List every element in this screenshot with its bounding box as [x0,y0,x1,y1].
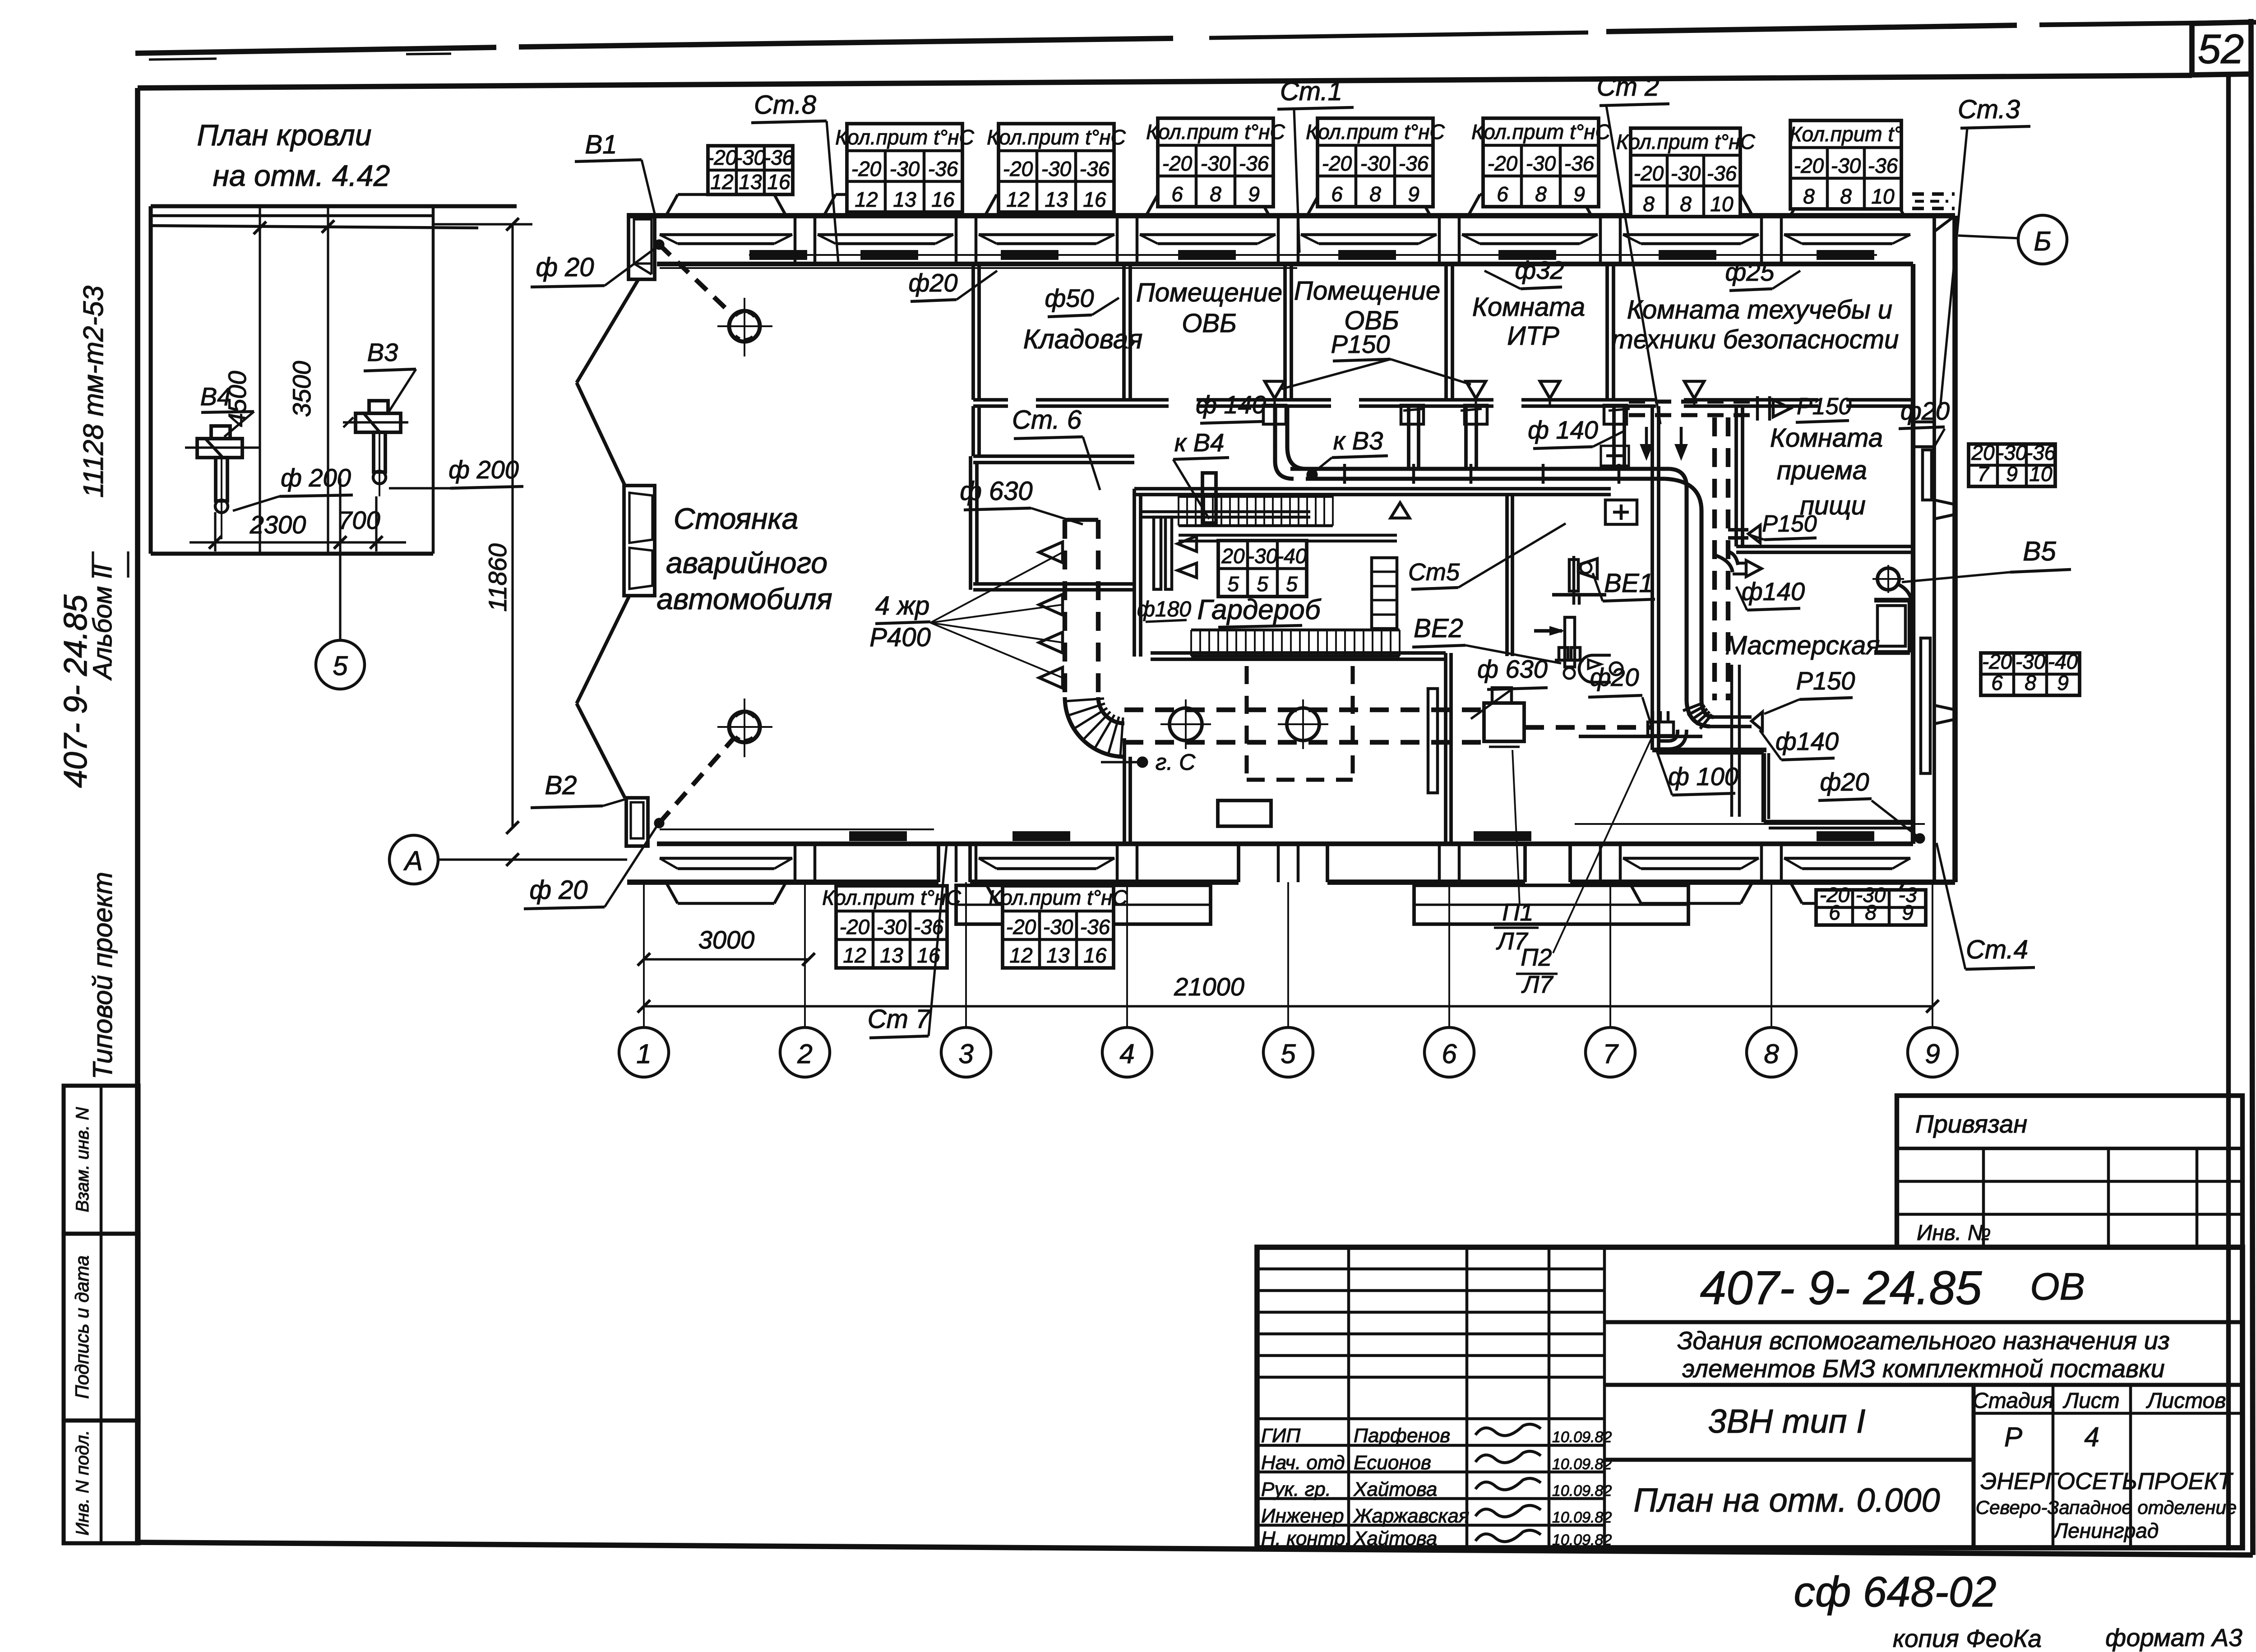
pier axis 6 north [1438,216,1441,264]
svg-text:13: 13 [1045,188,1068,211]
title right part lines [1604,1320,2242,1324]
table T9 (bottom) [836,886,947,968]
svg-text:ф20: ф20 [908,268,957,297]
axis circle 2 [780,1027,830,1077]
east wall inner [1911,264,1915,844]
svg-text:16: 16 [1083,188,1106,211]
riser boxes on room wall [1263,405,1286,424]
stair landing wall [1179,534,1397,537]
svg-text:6: 6 [1331,182,1343,206]
svg-text:Ст5: Ст5 [1408,559,1460,586]
f100 pipe elbow [1669,730,1687,749]
svg-text:8: 8 [1840,185,1852,208]
svg-text:10: 10 [1871,185,1895,208]
wall axis6 lower [1444,653,1447,844]
svg-text:10.09.82: 10.09.82 [1552,1456,1612,1473]
svg-text:11860: 11860 [483,543,512,612]
svg-text:6: 6 [1171,182,1183,206]
vent circle V1 [729,311,760,342]
pier axis 6 south [1438,844,1441,882]
table T5 [1318,118,1433,207]
dim 2300 / 700 [214,512,216,551]
south wall inner line [657,842,1913,846]
window north bay 5 [1301,233,1437,236]
axis A circle [389,835,438,884]
page number box 52 [2189,22,2195,75]
svg-text:ф140: ф140 [1775,727,1839,755]
svg-text:ф20: ф20 [1820,768,1869,796]
svg-text:700: 700 [338,506,380,534]
small riser unit right [1579,735,1702,738]
svg-text:16: 16 [767,170,791,194]
svg-text:П2: П2 [1521,944,1552,971]
svg-text:20: 20 [1221,544,1245,568]
svg-text:Кол.прит t°нС: Кол.прит t°нС [1616,130,1755,153]
stair flight lower [1191,629,1400,632]
roof dim line 3500 [327,206,329,554]
svg-text:Привязан: Привязан [1915,1110,2027,1138]
fan unit on duct [1484,703,1524,741]
svg-text:-30: -30 [1671,162,1701,185]
svg-text:ф 630: ф 630 [960,477,1032,506]
svg-text:ф 140: ф 140 [1196,390,1266,419]
flag triangles near f180 [1178,536,1197,551]
svg-text:B5: B5 [2023,536,2056,566]
stub cone [1773,400,1790,417]
svg-text:-36: -36 [1564,152,1595,175]
dim 11860 [511,224,513,828]
east cavity radiators [1923,450,1932,500]
axis 5 drop line and circle [339,478,341,641]
svg-text:8: 8 [1803,185,1815,208]
dim line 21000 [644,1005,1932,1007]
gs point [1138,758,1147,767]
window bump below bay 1 [666,882,678,903]
svg-text:пищи: пищи [1800,491,1866,520]
se corner dot [1916,834,1924,842]
radiator south [850,832,906,840]
svg-text:11128 тм-т2-53: 11128 тм-т2-53 [78,286,109,498]
masterskaya diffuser cone [1752,712,1762,730]
svg-text:ОВБ: ОВБ [1344,306,1399,335]
svg-text:-20: -20 [1982,650,2012,673]
svg-text:Кол.прит t°нС: Кол.прит t°нС [1146,120,1285,143]
sanuzel left wall [1505,495,1509,656]
svg-text:-30: -30 [877,915,907,939]
title block outer [1257,1247,2242,1548]
svg-text:8: 8 [1865,901,1877,924]
window bump above bay 5 [1307,194,1319,216]
table T13 (right) [1981,653,2080,695]
svg-text:Р400: Р400 [869,623,930,652]
svg-text:13: 13 [893,188,916,211]
svg-text:Рук. гр.: Рук. гр. [1261,1478,1331,1500]
svg-text:на отм. 4.42: на отм. 4.42 [213,159,390,192]
svg-text:5: 5 [1286,572,1298,596]
B5 circle symbol [1877,568,1899,590]
svg-text:-20: -20 [840,915,870,939]
svg-text:Взам. инв. N: Взам. инв. N [73,1107,92,1212]
intake triangles [1039,542,1063,563]
svg-text:52: 52 [2198,26,2244,72]
window north bay 2 [818,233,953,236]
svg-text:-20: -20 [851,157,882,180]
svg-text:12: 12 [843,944,866,967]
window bump below bay 8 [1790,882,1802,903]
svg-text:10.09.82: 10.09.82 [1552,1429,1612,1446]
priema diffuser cone [1748,525,1760,543]
pier axis 4 north [1116,216,1119,264]
svg-text:к В4: к В4 [1174,428,1225,457]
svg-text:План кровли: План кровли [197,118,371,152]
dashed door line to V2 [655,819,663,827]
room divider wall [1283,264,1287,400]
window bump below bay 3 [985,882,997,903]
vent B3 symbol [369,401,388,413]
svg-text:Лист: Лист [2062,1389,2120,1413]
svg-text:-20: -20 [1322,152,1352,175]
heating pipe south [660,828,934,830]
svg-text:-36: -36 [1080,157,1110,180]
svg-text:407- 9- 24.85: 407- 9- 24.85 [1700,1262,1982,1314]
svg-text:-30: -30 [1201,152,1231,175]
svg-text:7: 7 [1977,462,1989,486]
axis circle 1 [619,1027,669,1077]
svg-text:2300: 2300 [250,510,306,539]
roof dim line 4500 [259,206,261,554]
svg-text:8: 8 [1764,1039,1779,1069]
svg-text:ф 20: ф 20 [536,253,594,282]
svg-text:Нач. отд: Нач. отд [1261,1452,1345,1474]
porch left [956,885,1211,924]
svg-text:13: 13 [880,944,903,967]
east wall middle line [1932,216,1936,882]
svg-text:9: 9 [1925,1039,1940,1069]
svg-text:Кол.прит t°нС: Кол.прит t°нС [989,886,1128,909]
kladovaya left wall [971,264,975,400]
window bump above bay 2 [824,194,836,216]
svg-text:ф 100: ф 100 [1668,762,1738,791]
dashed door line to V1 [655,241,663,249]
window bump above bay 4 [1146,194,1158,216]
svg-text:Помещение: Помещение [1136,278,1282,307]
axis extension lines [643,882,645,1027]
svg-text:-20: -20 [1488,152,1518,175]
pier axis 8 north [1760,216,1763,264]
shaft dashed duct vertical [1712,417,1717,700]
west wall bottom jamb [626,798,648,846]
room bottom wall (top rooms) [973,398,1008,402]
svg-text:-20: -20 [1003,157,1033,180]
svg-text:ГИП: ГИП [1261,1425,1300,1447]
svg-text:B4: B4 [200,382,231,411]
window bump above bay 8 [1790,194,1802,216]
svg-text:Типовой проект: Типовой проект [88,872,118,1079]
svg-text:Кол.прит t°нС: Кол.прит t°нС [835,125,974,149]
pier axis 7 north [1599,216,1602,264]
svg-text:Альбом II: Альбом II [88,565,117,681]
small solid rect [1218,801,1271,826]
svg-text:-36: -36 [928,157,958,180]
corridor south walls [1123,738,1126,844]
svg-text:Кол.прит t°нС: Кол.прит t°нС [1306,120,1445,143]
west wall middle pier [624,486,655,596]
svg-text:Ст 2: Ст 2 [1597,72,1660,102]
svg-text:Р150: Р150 [1796,666,1855,695]
main duct right elbow down [1669,469,1687,487]
vestibule north wall [973,454,1134,458]
svg-text:8: 8 [1535,182,1547,206]
svg-text:копия ФеоКа: копия ФеоКа [1893,1624,2042,1652]
svg-text:Ст.1: Ст.1 [1280,77,1342,106]
svg-text:8: 8 [1369,182,1381,206]
svg-text:приема: приема [1777,456,1867,485]
svg-text:12: 12 [855,188,878,211]
svg-text:12: 12 [1009,944,1032,967]
svg-text:B2: B2 [545,771,577,800]
shaft thin pipe [1730,665,1734,817]
window bump above bay 7 [1629,194,1641,216]
radiator north [1179,251,1235,259]
room divider wall [1605,264,1609,400]
svg-text:Ст.4: Ст.4 [1966,935,2028,964]
svg-text:2: 2 [797,1039,812,1069]
riser flags [1265,381,1285,398]
svg-text:6: 6 [1497,182,1508,206]
vestibule left wall [969,456,972,590]
svg-text:10.09.82: 10.09.82 [1552,1482,1612,1499]
north wall outer line [627,213,1955,218]
table T8 [1790,120,1901,209]
pier axis 3 south [955,844,958,882]
window north bay 1 [660,233,792,236]
corridor duct dashed upper [1124,708,1484,712]
svg-text:А: А [403,846,423,876]
shaft wall left [1650,406,1654,750]
svg-text:9: 9 [1573,182,1585,206]
top right dashed stub duct [1629,399,1757,403]
svg-text:B1: B1 [585,130,617,159]
window south bay 1 [660,857,792,860]
axis circle 4 [1102,1027,1152,1077]
svg-text:-30: -30 [735,146,766,169]
svg-text:-30: -30 [1248,544,1278,568]
svg-text:-20: -20 [1162,152,1193,175]
svg-text:9: 9 [1248,182,1260,206]
svg-text:B3: B3 [367,338,398,366]
west wall zigzag lower [577,596,629,703]
svg-text:Стоянка: Стоянка [674,502,799,535]
vestibule south wall [973,582,1134,586]
svg-text:Инв. N подл.: Инв. N подл. [73,1430,92,1536]
window north bay 8 [1784,233,1910,236]
svg-text:Подпись и дата: Подпись и дата [71,1255,92,1399]
svg-text:Ст.3: Ст.3 [1958,95,2020,124]
west wall zigzag upper [577,279,638,383]
svg-text:Северо-Западное отделение: Северо-Западное отделение [1976,1497,2237,1518]
table T1 (Ст.8) [708,146,793,194]
svg-text:3500: 3500 [287,361,316,417]
svg-text:Хайтова: Хайтова [1353,1478,1437,1500]
svg-text:5: 5 [1227,572,1239,596]
window bump above bay 6 [1468,194,1480,216]
svg-text:Кол.прит t°: Кол.прит t° [1789,122,1902,146]
svg-text:Ст 7: Ст 7 [868,1004,931,1034]
duct elbow spokes [1065,697,1124,757]
porch right [1414,885,1688,924]
svg-text:Листов: Листов [2146,1389,2226,1413]
stove unit [1877,606,1905,646]
east cavity stubs top [1913,421,1934,424]
svg-text:Ленинград: Ленинград [2053,1519,2159,1542]
sheet top edge line [135,47,496,53]
heating pipe along north wall [749,254,1877,256]
svg-text:-36: -36 [1868,154,1898,177]
svg-text:Здания вспомогательного назн: Здания вспомогательного назначения из [1677,1326,2170,1355]
svg-text:Комната: Комната [1472,292,1585,322]
axis circle 5 [1263,1027,1313,1077]
radiator north [1339,251,1395,259]
svg-text:ф25: ф25 [1725,258,1775,286]
down arrows [1645,427,1648,456]
svg-text:6: 6 [1829,901,1840,924]
svg-text:3: 3 [958,1039,973,1069]
svg-text:Гардероб: Гардероб [1197,594,1321,625]
svg-text:техники безопасности: техники безопасности [1612,325,1899,354]
masterskaya branch duct [1714,715,1752,719]
svg-text:4: 4 [2084,1422,2099,1452]
priema pischi bottom wall [1736,545,1913,548]
signature squiggles [1475,1424,1541,1435]
risers P on corridor wall [1559,648,1568,660]
window south bay 7 [1623,857,1759,860]
window north bay 6 [1462,233,1598,236]
svg-text:5: 5 [333,651,348,681]
svg-text:ЭНЕРГОСЕТЬПРОЕКТ: ЭНЕРГОСЕТЬПРОЕКТ [1980,1468,2233,1495]
pier axis 8 south [1760,844,1763,882]
tekhucheby dashed stub [1912,192,1955,196]
radiator south [1475,832,1530,840]
dim line 3000 [644,958,809,960]
pier axis 5 south [1277,844,1280,882]
f140 elbow branch [1728,551,1738,565]
radiator south [1013,832,1069,840]
svg-text:-36: -36 [1707,162,1737,185]
left stamp boxes [64,1086,139,1234]
south door jambs [1523,844,1527,882]
dashed underfloor rect [1244,666,1248,780]
small plus sign top [1606,454,1623,458]
window bump above bay 3 [985,194,997,216]
svg-text:8: 8 [1210,182,1221,206]
svg-text:-30: -30 [1360,152,1391,175]
svg-text:-36: -36 [1239,152,1269,175]
triangle vent [1391,503,1410,518]
stair flight middle [1179,495,1333,498]
pier axis 4 south [1116,844,1119,882]
svg-text:4 жр: 4 жр [875,591,930,620]
kladovaya wall to vestibule [971,406,975,456]
main duct horizontal [1290,467,1669,471]
south door jambs [937,844,940,882]
svg-text:13: 13 [1046,944,1070,967]
signature columns [1347,1247,1350,1548]
svg-text:-36: -36 [1399,152,1429,175]
svg-text:10.09.82: 10.09.82 [1552,1532,1612,1549]
svg-text:Стадия: Стадия [1973,1389,2054,1413]
svg-text:16: 16 [1083,944,1107,967]
duct continues right [1525,725,1652,730]
svg-text:13: 13 [739,170,762,194]
table T11 (bottom right) [1816,890,1926,925]
priema branch duct [1728,528,1748,532]
svg-text:10: 10 [1710,192,1734,216]
corridor duct dashed lower [1124,740,1484,745]
svg-text:ф140: ф140 [1742,577,1805,606]
small cabinet with rungs [1372,558,1397,629]
east wall outer [1952,216,1958,882]
svg-text:-30: -30 [1997,441,2027,464]
privyazan box [1897,1096,2242,1247]
svg-text:ф 200: ф 200 [448,455,519,484]
svg-text:1: 1 [636,1039,651,1069]
table T7 [1631,128,1740,217]
svg-text:4: 4 [1119,1039,1134,1069]
svg-text:9: 9 [2006,462,2018,486]
duct flange ticks [1343,464,1346,484]
radiator south [1817,832,1873,840]
svg-text:П1: П1 [1502,899,1533,926]
vent B4 symbol [211,426,230,439]
svg-text:20: 20 [1971,441,1995,464]
north wall inner line [657,262,1913,266]
axis B circle [2018,215,2067,264]
stair mid handrail [1141,510,1310,514]
svg-text:12: 12 [710,170,733,194]
svg-text:7: 7 [1603,1039,1619,1069]
priema pischi left wall [1734,406,1738,546]
svg-text:Мастерская: Мастерская [1725,631,1880,660]
svg-text:Кол.прит t°нС: Кол.прит t°нС [1471,120,1610,143]
svg-text:5: 5 [1257,572,1268,596]
plus box [1605,500,1637,524]
svg-text:-36: -36 [2026,441,2056,464]
f180 bars [1154,517,1161,589]
svg-text:ф20: ф20 [1590,663,1639,691]
door leaf lower corridor [1428,689,1438,793]
svg-text:9: 9 [1902,901,1914,924]
svg-text:-40: -40 [1277,544,1307,568]
svg-text:-20: -20 [1794,154,1824,177]
svg-text:ОВ: ОВ [2030,1265,2085,1308]
svg-text:10.09.82: 10.09.82 [1552,1509,1612,1526]
svg-text:ИТР: ИТР [1507,321,1559,351]
svg-text:к В3: к В3 [1333,426,1383,455]
svg-text:9: 9 [2057,671,2069,694]
riser drops to duct [1407,405,1410,469]
svg-text:-30: -30 [1043,915,1073,939]
svg-text:-40: -40 [2048,650,2078,673]
window bump below bay 7 [1629,882,1641,903]
svg-text:ОВБ: ОВБ [1182,309,1237,338]
svg-text:Кладовая: Кладовая [1023,324,1143,354]
radiator north [1660,251,1715,259]
svg-text:3ВН тип I: 3ВН тип I [1708,1402,1865,1440]
svg-text:Л7: Л7 [1521,971,1553,998]
svg-text:9: 9 [1408,182,1419,206]
svg-text:-20: -20 [707,146,737,169]
axis circle 7 [1586,1027,1635,1077]
